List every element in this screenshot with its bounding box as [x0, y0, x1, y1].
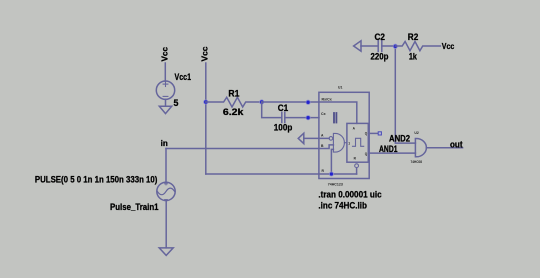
unconnected pin square Q	[378, 132, 381, 135]
svg-text:R2: R2	[408, 32, 419, 42]
wire in net B input jog	[166, 145, 333, 149]
wire to IC pin Rx/Cx	[262, 101, 319, 103]
wire gate output	[344, 142, 347, 144]
ground	[159, 106, 171, 113]
resistor R1	[206, 97, 262, 107]
wire	[165, 200, 167, 248]
svg-text:AND1: AND1	[379, 144, 398, 154]
pulse glyph	[353, 138, 364, 146]
voltage source Pulse_Train1	[157, 182, 175, 200]
svg-text:Vcc: Vcc	[200, 46, 210, 61]
reset bubble	[355, 164, 359, 168]
inner one-shot block	[347, 123, 368, 162]
svg-text:in: in	[161, 138, 168, 148]
wire out	[426, 147, 462, 149]
wire	[165, 99, 167, 106]
wire in vertical	[165, 149, 167, 183]
junction	[306, 116, 310, 120]
wire Qbar to AND1	[369, 152, 415, 154]
IC U1 74HC123 outer box	[319, 92, 369, 178]
svg-text:U2: U2	[414, 131, 418, 135]
svg-text:74HC123: 74HC123	[328, 182, 343, 186]
wire Q output stub	[369, 132, 378, 134]
voltage source Vcc1	[156, 81, 174, 99]
svg-text:100p: 100p	[274, 123, 293, 133]
svg-text:5: 5	[174, 98, 179, 108]
wire CLR riser	[331, 149, 333, 174]
wire C1 branch	[262, 102, 282, 118]
svg-text:.inc 74HC.lib: .inc 74HC.lib	[318, 200, 367, 210]
junction	[393, 44, 397, 48]
svg-text:Vcc: Vcc	[442, 41, 455, 51]
input arrow A	[298, 133, 304, 143]
svg-text:C1: C1	[278, 103, 289, 113]
svg-text:C2: C2	[375, 32, 386, 42]
inverter bubble	[329, 137, 333, 141]
svg-text:.tran 0.00001 uic: .tran 0.00001 uic	[318, 190, 381, 200]
svg-text:PULSE(0 5 0 1n 1n 150n 333n 10: PULSE(0 5 0 1n 1n 150n 333n 10)	[35, 174, 157, 184]
junction	[329, 172, 333, 176]
svg-text:Pulse_Train1: Pulse_Train1	[110, 202, 159, 212]
wire CLR rail horizontal	[206, 173, 357, 175]
junction	[306, 100, 310, 104]
svg-text:1k: 1k	[409, 52, 417, 62]
junction	[204, 100, 208, 104]
AND gate U2	[415, 139, 426, 157]
ground	[159, 248, 173, 256]
svg-text:220p: 220p	[371, 52, 390, 62]
svg-text:1: 1	[348, 142, 350, 146]
svg-text:U1: U1	[338, 85, 342, 89]
svg-text:Vcc: Vcc	[160, 47, 170, 62]
wire A input	[304, 137, 329, 139]
capacitor C1	[282, 112, 319, 122]
and gate internal	[333, 133, 344, 152]
junction	[260, 100, 264, 104]
svg-text:Cx: Cx	[321, 112, 326, 116]
svg-text:R1: R1	[228, 89, 239, 99]
svg-text:6.2k: 6.2k	[223, 107, 244, 117]
svg-text:Rx/Cx: Rx/Cx	[322, 97, 332, 101]
capacitor C2	[378, 41, 395, 52]
wire AND2 riser from C2/R2 junction	[395, 46, 415, 143]
input arrow (C2 left)	[354, 41, 361, 51]
internal capacitor Cx	[334, 113, 336, 123]
svg-text:Vcc1: Vcc1	[175, 72, 192, 82]
internal wire Rx/Cx to one-shot	[319, 102, 357, 123]
svg-text:AND2: AND2	[389, 133, 410, 143]
wire	[164, 63, 166, 81]
svg-text:74HC08: 74HC08	[411, 160, 423, 164]
resistor R2	[395, 42, 440, 51]
wire Vcc rail vertical	[205, 63, 207, 174]
wire	[361, 45, 378, 47]
svg-text:out: out	[450, 139, 463, 149]
wire reset bubble to rail	[356, 168, 358, 174]
